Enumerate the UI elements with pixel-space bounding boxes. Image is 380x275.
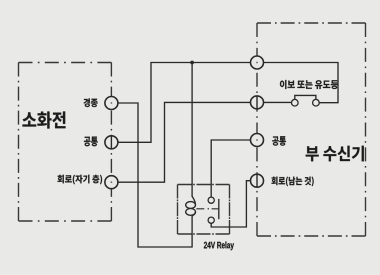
label 회로(남는 것) xyxy=(271,177,313,187)
label 부 수신기 (sub receiver) xyxy=(306,146,364,162)
wire: indication terminal to left lamp contact xyxy=(263,101,291,103)
terminal: receiver top xyxy=(251,56,264,69)
relay box: top border xyxy=(178,184,230,186)
wire: common(left) right, up, across top to receiver top terminal xyxy=(118,63,251,143)
relay box: right border xyxy=(229,185,231,235)
relay box: bottom border xyxy=(178,233,230,235)
sub receiver box: bottom border xyxy=(257,235,366,237)
lamp contact right circle xyxy=(313,99,320,106)
label 회로(자기 층) xyxy=(57,175,102,185)
terminal: bell 경종 (left) xyxy=(105,97,118,110)
label 경종 (bell) xyxy=(84,98,98,107)
label 이보 또는 유도등 xyxy=(280,80,338,89)
sub receiver box: right border xyxy=(365,23,367,236)
relay coil loops xyxy=(192,196,195,205)
label 공통 (common, left) xyxy=(84,137,98,147)
fire hydrant box: bottom border xyxy=(19,220,112,222)
relay contact blade xyxy=(218,199,220,219)
relay actuator link dash-dot xyxy=(196,208,219,210)
fire hydrant box: left border xyxy=(18,63,20,222)
terminal: common 공통 (right) xyxy=(251,134,264,147)
wire: bell terminal right, down, to relay coil bottom lead xyxy=(118,103,192,247)
terminal: common 공통 (left) xyxy=(105,136,118,149)
relay contact fixed point bottom xyxy=(208,217,214,223)
wire: circuit(own floor) right, up, to indication terminal xyxy=(118,102,251,182)
relay contact fixed point top xyxy=(208,197,214,203)
wire: common(right) left then down to relay contact top xyxy=(211,140,250,197)
wire: relay contact bottom right and up to spare circuit terminal xyxy=(211,181,250,227)
label 공통 (common, right) xyxy=(272,136,286,145)
fire hydrant box 소화전: top border xyxy=(19,62,112,64)
terminal: indication/guide-lamp xyxy=(251,96,264,109)
wire: right lamp contact right, up, back to top terminal xyxy=(263,63,338,103)
relay box: left border xyxy=(177,185,179,235)
terminal: spare circuit xyxy=(251,174,264,187)
terminal: circuit own-floor (left) xyxy=(105,176,118,189)
junction dot on top wire xyxy=(190,61,194,65)
sub receiver box: left border (terminal line) xyxy=(256,23,258,236)
label 소화전 (fire hydrant) xyxy=(22,112,65,129)
label 24V Relay xyxy=(204,241,234,250)
wire: junction down to relay coil top lead xyxy=(191,63,193,198)
fire hydrant box: right border (terminal line) xyxy=(110,63,112,222)
sub receiver box 부 수신기: top border xyxy=(257,22,366,24)
lamp contact left circle xyxy=(292,99,299,106)
lamp contact bridge bar xyxy=(295,95,316,99)
